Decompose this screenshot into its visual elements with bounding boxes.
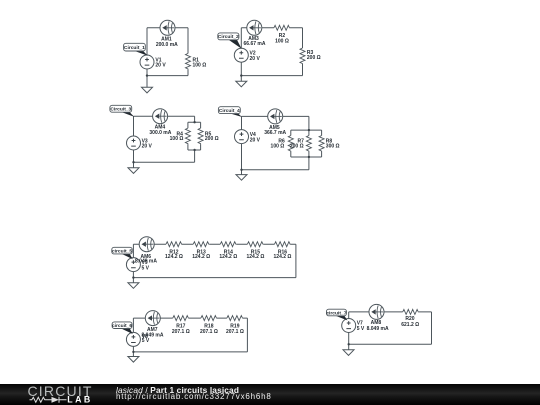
- svg-text:124.2 Ω: 124.2 Ω: [246, 254, 264, 260]
- svg-text:200 Ω: 200 Ω: [290, 143, 304, 149]
- svg-text:200.0 mA: 200.0 mA: [156, 42, 178, 48]
- svg-text:200 Ω: 200 Ω: [307, 55, 321, 61]
- svg-text:300 Ω: 300 Ω: [326, 143, 340, 149]
- svg-text:Circuit_4: Circuit_4: [219, 108, 240, 114]
- svg-text:20 V: 20 V: [155, 63, 166, 69]
- svg-text:66.67 mA: 66.67 mA: [244, 41, 266, 47]
- svg-text:100 Ω: 100 Ω: [170, 136, 184, 142]
- svg-text:207.1 Ω: 207.1 Ω: [200, 329, 218, 335]
- svg-text:Circuit_3: Circuit_3: [110, 107, 131, 113]
- svg-text:LAB: LAB: [67, 394, 92, 404]
- svg-text:Circuit_1: Circuit_1: [124, 45, 145, 51]
- svg-text:366.7 mA: 366.7 mA: [264, 130, 286, 136]
- svg-text:5 V: 5 V: [142, 265, 150, 271]
- svg-text:100 Ω: 100 Ω: [271, 143, 285, 149]
- svg-text:124.2 Ω: 124.2 Ω: [219, 254, 237, 260]
- svg-text:100 Ω: 100 Ω: [275, 38, 289, 44]
- svg-text:300.0 mA: 300.0 mA: [149, 130, 171, 136]
- svg-text:circuit_6: circuit_6: [112, 323, 132, 329]
- svg-text:5 V: 5 V: [357, 326, 365, 332]
- svg-text:124.2 Ω: 124.2 Ω: [165, 254, 183, 260]
- svg-text:124.2 Ω: 124.2 Ω: [274, 254, 292, 260]
- svg-text:20 V: 20 V: [142, 144, 153, 150]
- svg-text:124.2 Ω: 124.2 Ω: [192, 254, 210, 260]
- svg-text:circuit_7: circuit_7: [326, 310, 346, 316]
- svg-text:20 V: 20 V: [250, 137, 261, 143]
- svg-text:207.1 Ω: 207.1 Ω: [172, 329, 190, 335]
- svg-text:Circuit_2: Circuit_2: [218, 34, 239, 40]
- svg-text:200 Ω: 200 Ω: [205, 136, 219, 142]
- svg-text:8.049 mA: 8.049 mA: [367, 326, 389, 332]
- svg-text:circuit_5: circuit_5: [112, 248, 132, 254]
- svg-text:207.1 Ω: 207.1 Ω: [226, 329, 244, 335]
- svg-text:621.2 Ω: 621.2 Ω: [401, 322, 419, 328]
- svg-text:5 V: 5 V: [142, 338, 150, 344]
- svg-text:20 V: 20 V: [250, 56, 261, 62]
- svg-text:100 Ω: 100 Ω: [193, 63, 207, 69]
